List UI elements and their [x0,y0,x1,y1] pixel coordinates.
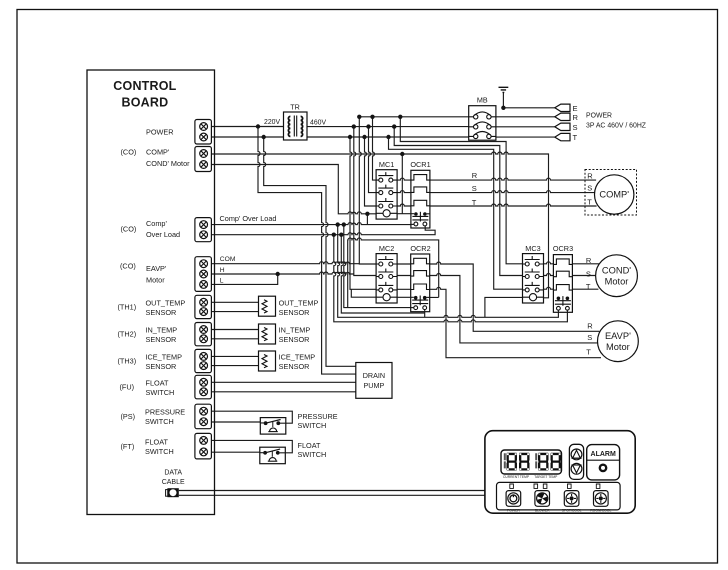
wire: R row from MB left to bus taps [359,116,468,118]
svg-text:ALARM: ALARM [591,451,616,458]
lug E [555,104,570,111]
transformer primary winding [288,116,290,136]
wire: OCR2 aux right circle drop stub [424,310,426,312]
svg-text:R: R [472,171,478,180]
svg-text:IN_TEMP: IN_TEMP [279,326,311,335]
svg-text:CONTROL: CONTROL [113,79,176,93]
svg-text:T: T [586,282,591,291]
wire: MC2 coil chain loop top [348,238,439,308]
terminal block EAVP Motor [195,257,212,292]
svg-text:(TH2): (TH2) [118,330,137,339]
wire: EAVP COM row [209,262,360,264]
svg-text:(CO): (CO) [121,224,137,233]
svg-text:3P AC 460V / 60HZ: 3P AC 460V / 60HZ [586,123,646,130]
wire: MC2 coil right to OCR2 aux left dot [397,296,414,298]
svg-text:S: S [472,184,477,193]
node: coil row junction [365,212,369,216]
node: earth junction [501,106,505,110]
wire: overload drop to OCR2 aux left circle [344,225,411,308]
float switch symbol [260,447,286,464]
svg-text:ROOM/COOL: ROOM/COOL [590,508,611,512]
data cable connector [166,490,168,497]
wire: EAVP L row join [209,274,278,284]
svg-text:R: R [586,256,592,265]
svg-text:OCR3: OCR3 [553,244,573,253]
wire: earth wire to E lug [503,92,554,108]
svg-text:R: R [573,113,579,122]
wire: overload drop to MC3 coil left [341,235,424,313]
wire: R bus tap to MC2 pole1 [359,117,376,264]
wire: R bus tap to MC1 pole1 [373,117,377,180]
wire: 220V drop B from power t2 down, over to drain pump [264,137,356,366]
svg-text:MB: MB [477,96,488,105]
svg-text:(CO): (CO) [120,262,136,271]
wire: 460V S row from TR right to MB [307,126,469,128]
svg-text:(PS): (PS) [121,412,136,421]
node: H/L join [276,272,280,276]
motor EAVP' [598,321,639,362]
drain pump box [356,363,392,399]
wire: MC3 pole outputs to OCR3 with hops over coil drop [544,262,554,264]
wire: POWER terminal1 220V line to TR left [209,126,284,128]
lug R [555,113,570,120]
svg-text:S: S [586,270,591,279]
up button [571,449,582,460]
wire: overload drop to OCR3 aux left circle [338,225,559,318]
svg-text:Motor: Motor [606,342,630,352]
motor COMP' [595,175,634,214]
svg-text:SENSOR: SENSOR [146,335,177,344]
svg-text:Comp' Over Load: Comp' Over Load [220,214,277,223]
svg-text:POWER: POWER [586,113,612,120]
wire: OCR1 T output to COMP motor [430,204,597,206]
lug T [555,133,570,140]
svg-text:POWER: POWER [507,508,520,512]
svg-text:H: H [220,267,225,274]
svg-text:SENSOR: SENSOR [279,308,310,317]
breaker pole T [469,132,496,139]
svg-text:FLOAT: FLOAT [145,438,169,447]
led indicator squares [510,484,600,488]
control board box [87,70,215,515]
svg-text:SWITCH: SWITCH [145,417,174,426]
wire: 220V drop A from power t1 down, over to drain pump [258,127,356,375]
svg-text:T: T [573,133,578,142]
node: 220V tap dots on power rows [256,124,260,128]
wire: OCR1 S output to COMP motor [430,191,595,193]
wire: FT float switch wires [209,440,293,452]
wire: T bus tap to MC2 pole3 [350,137,376,289]
wire: COND' control row from board, down, to MC1 coil left [209,165,377,214]
svg-text:FLOAT: FLOAT [146,379,170,388]
svg-text:Motor: Motor [605,277,629,287]
transformer core bars [294,116,296,137]
terminal block POWER [195,120,212,145]
breaker MB box [469,106,496,141]
svg-text:(FT): (FT) [121,442,135,451]
svg-text:MC3: MC3 [525,244,540,253]
svg-text:TR: TR [290,103,300,112]
svg-text:Over Load: Over Load [146,230,180,239]
svg-text:S: S [587,333,592,342]
up/down button box [569,444,583,479]
pressure switch symbol [260,418,286,435]
wire: EAVP H row [209,272,354,274]
wire: R line to MC3 via MB underpass [400,117,522,264]
down button [571,463,582,474]
transformer TR box [284,112,308,140]
svg-text:460V: 460V [310,119,326,126]
wire: OCR2 S output down to EAVP motor [430,274,598,343]
svg-text:CURRENT TEMP: CURRENT TEMP [503,475,530,479]
svg-text:T: T [587,197,592,206]
button row box [497,482,621,510]
wire: data cable pair to control panel [179,491,485,496]
contactor MC1 [376,170,397,219]
wire: staircase into OCR1 aux right circle [424,226,426,229]
terminal block TH2 [195,323,212,346]
wire: MC2 pole outputs to OCR2 [397,264,411,289]
wire: MB right outputs to lugs [496,117,555,137]
wire: FU float switch wires to drain pump [209,382,356,392]
svg-text:FLOAT: FLOAT [298,441,322,450]
svg-text:(TH1): (TH1) [118,302,137,311]
terminal block TH1 [195,295,212,318]
terminal block Comp Over Load [195,218,212,242]
svg-text:COM: COM [220,256,236,263]
contactor MC2 [376,254,397,303]
alarm box [587,445,620,480]
svg-text:PRESSURE: PRESSURE [145,408,185,417]
svg-text:E: E [573,104,578,113]
svg-text:BLOWER: BLOWER [535,508,550,512]
wire: TH1 sensor wires [209,302,259,311]
svg-text:R: R [587,171,593,180]
svg-text:(TH3): (TH3) [118,357,137,366]
node: overload row taps [336,222,340,226]
ground symbol [499,87,509,92]
svg-text:SENSOR: SENSOR [146,362,177,371]
svg-text:SWITCH: SWITCH [298,421,327,430]
alarm indicator [600,465,606,471]
svg-text:SWITCH: SWITCH [146,388,175,397]
wire: MC1 pole outputs to OCR1 with hops [397,178,411,206]
svg-text:IN_TEMP: IN_TEMP [146,326,178,335]
wire: OCR2 aux right circle drop to chain [424,312,426,318]
node: S row taps [352,124,356,128]
svg-text:SPOT/COOL: SPOT/COOL [562,508,582,512]
svg-text:OCR2: OCR2 [410,244,430,253]
wire: T row from POWER terminal2 under TR to MB [209,136,469,138]
wire: junction drop from COND/coil row to overload row1 [366,214,368,225]
svg-text:BOARD: BOARD [121,96,168,110]
wire: vertical from COMP row dot down right side of MC1 to coil right [401,154,403,214]
panel outer shell [485,431,635,514]
svg-text:S: S [587,183,592,192]
wire: comp over load row2 from board to OCR1 aux right staircase [209,225,436,234]
button ROOM/COOL [594,491,609,507]
wire: S bus tap to MC2 pole2 [354,127,376,276]
wire: overload drop to OCR3 aux right circle [334,235,568,322]
svg-text:SWITCH: SWITCH [145,447,174,456]
svg-text:T: T [586,348,591,357]
overload relay OCR1 [411,170,430,228]
svg-text:TARGET TEMP: TARGET TEMP [534,475,558,479]
wire: pressure switch contact stubs [260,422,286,424]
svg-text:Motor: Motor [146,275,165,284]
breaker pole R [469,112,496,119]
contactor MC3 [523,254,544,303]
wire: OCR1 R output to COMP motor [430,178,597,180]
wire: S bus tap to MC1 pole2 [369,127,377,193]
svg-text:T: T [472,198,477,207]
button SPOT/COOL [564,491,579,507]
lug S [555,123,570,130]
svg-text:OUT_TEMP: OUT_TEMP [146,299,186,308]
svg-text:SENSOR: SENSOR [279,362,310,371]
sensor ICE_TEMP [259,351,276,371]
wire: comp over load row1 from board to OCR1 aux left [209,223,416,225]
node: R row taps [357,115,361,119]
wire: float switch contact stubs [260,452,286,454]
sensor IN_TEMP [259,324,276,344]
wire: MC2 coil right to OCR2 aux left dot [416,296,439,298]
svg-text:ICE_TEMP: ICE_TEMP [279,353,316,362]
terminal block FU [195,375,212,399]
svg-text:DRAIN: DRAIN [363,371,385,380]
wire: OCR3 outputs to COND motor [573,264,599,289]
svg-text:SENSOR: SENSOR [279,335,310,344]
svg-text:S: S [573,123,578,132]
terminal block PS [195,404,212,429]
wire: T bus tap to MC1 pole3 [365,137,377,206]
wire: TH2 sensor wires [209,330,259,339]
wire: chain into OCR2 aux left circle [411,307,414,309]
overload relay OCR3 [553,255,572,313]
svg-text:SWITCH: SWITCH [298,450,327,459]
svg-text:Comp': Comp' [146,219,167,228]
svg-text:CABLE: CABLE [162,479,185,486]
overload relay OCR2 [411,254,430,312]
svg-text:COND': COND' [602,266,631,276]
svg-text:MC2: MC2 [379,244,394,253]
svg-text:PUMP: PUMP [364,381,385,390]
svg-text:DATA: DATA [164,469,182,476]
sensor OUT_TEMP [259,296,276,316]
terminal block COMP/COND [195,147,212,172]
compressor dashed box [585,170,637,216]
button BLOWER [535,491,550,507]
svg-text:PRESSURE: PRESSURE [298,412,338,421]
svg-text:COND' Motor: COND' Motor [146,159,190,168]
wire: T line to MC3 via MB underpass [389,137,523,289]
svg-text:SENSOR: SENSOR [146,308,177,317]
svg-text:POWER: POWER [146,128,174,137]
wire: MC2 coil left short riser [351,289,376,297]
node: COMP row branch [400,152,404,156]
wire: TH3 sensor wires [209,356,259,365]
wire: COMP' control row from board to MC3 coil right [209,152,549,298]
svg-text:OCR1: OCR1 [410,160,430,169]
svg-text:ICE_TEMP: ICE_TEMP [146,353,183,362]
svg-text:220V: 220V [264,119,280,126]
terminal block FT [195,433,212,459]
svg-text:(FU): (FU) [120,383,135,392]
button POWER [506,491,521,507]
svg-text:EAVP': EAVP' [605,331,631,341]
node: T row taps [348,135,352,139]
seven segment digits [504,453,561,471]
breaker pole S [469,122,496,129]
svg-text:COMP': COMP' [146,148,170,157]
wire: PS pressure switch wires [209,411,293,423]
motor COND' [596,255,638,297]
terminal block TH3 [195,349,212,372]
display window [501,450,562,474]
wire: OCR3 aux circle stubs [558,310,567,312]
svg-text:R: R [587,321,593,330]
wire: MC1 coil right to OCR1 aux left dot [397,213,414,215]
wire: OCR1 aux right dot stub [427,213,430,215]
wire: OCR2 R output down to EAVP motor [430,262,600,331]
svg-text:L: L [220,277,224,284]
svg-text:MC1: MC1 [379,160,394,169]
wire: S line to MC3 via MB underpass [394,127,522,276]
wire: OCR2 aux right dot to loop vertical stub [427,296,430,298]
svg-text:COMP': COMP' [599,190,629,200]
svg-text:OUT_TEMP: OUT_TEMP [279,299,319,308]
svg-text:(CO): (CO) [121,148,137,157]
svg-text:EAVP': EAVP' [146,264,167,273]
wire: overload row1 into OCR1 aux left circle [411,223,414,225]
transformer secondary winding [301,116,303,136]
wire: OCR2 T output down to EAVP motor [430,287,601,357]
